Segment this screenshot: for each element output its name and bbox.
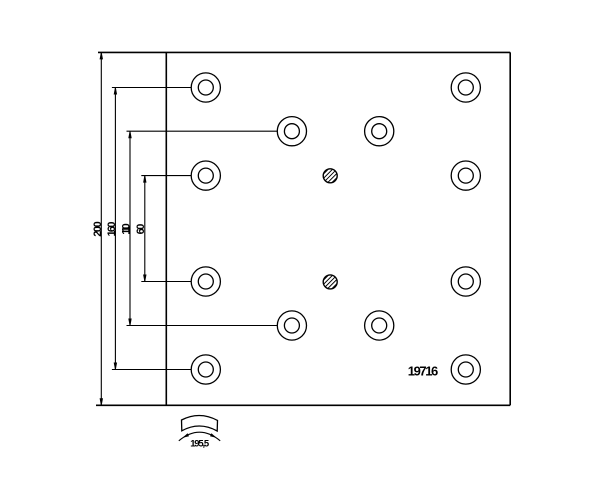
leader line row A (112, 87, 191, 89)
plate bottom edge (96, 404, 510, 406)
dimension line 110 (129, 131, 131, 325)
svg-text:19716: 19716 (408, 364, 439, 379)
plate top edge (98, 51, 510, 53)
rivet hole C4 outer+inner (451, 267, 480, 296)
rivet hole A1 outer+inner (191, 73, 220, 102)
cross-section band (182, 415, 218, 431)
arrow 110 top (128, 132, 131, 139)
leader line mid row 2 (127, 325, 278, 327)
width dimension arc (179, 432, 220, 441)
arrow 200 bottom (100, 398, 103, 405)
dimension line 160 (114, 88, 116, 370)
rivet hole M2 outer+inner (365, 117, 394, 146)
arc arrow right (210, 433, 217, 438)
rivet hole B1 outer+inner (191, 161, 220, 190)
rivet hole D4 outer+inner (451, 355, 480, 384)
rivet hole C1 outer+inner (191, 267, 220, 296)
leader line row B (141, 175, 191, 177)
svg-text:160: 160 (106, 222, 118, 237)
hatched pin hole 2 (321, 264, 339, 299)
svg-text:60: 60 (135, 224, 147, 235)
arrow 200 top (100, 53, 103, 60)
svg-text:200: 200 (92, 221, 104, 237)
rivet hole D1 outer+inner (191, 355, 220, 384)
rivet hole M3 outer+inner (277, 311, 306, 340)
arrow 60 bottom (143, 275, 146, 282)
arrow 160 bottom (114, 363, 117, 370)
rivet hole B4 outer+inner (451, 161, 480, 190)
arc arrow left (182, 433, 189, 438)
arrow 110 bottom (128, 319, 131, 326)
rivet hole A4 outer+inner (451, 73, 480, 102)
leader line mid row 1 (127, 130, 278, 132)
leader line row D (112, 369, 191, 371)
arrow 160 top (114, 88, 117, 95)
rivet hole M4 outer+inner (365, 311, 394, 340)
plate right edge (509, 52, 511, 405)
dimension line 200 (100, 52, 102, 405)
dimension line 60 (144, 176, 146, 282)
rivet hole M1 outer+inner (277, 117, 306, 146)
svg-text:110: 110 (120, 223, 132, 235)
svg-text:195,5: 195,5 (190, 438, 210, 449)
hatched pin hole 1 (321, 158, 339, 193)
leader line row C (141, 281, 191, 283)
arrow 60 top (143, 176, 146, 183)
plate left edge (165, 52, 167, 405)
